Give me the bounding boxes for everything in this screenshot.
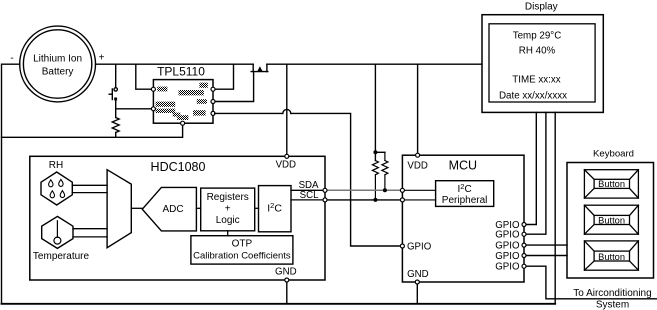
wire MCU VDD branch from rail <box>417 64 419 155</box>
svg-text:-: - <box>10 53 13 64</box>
svg-text:GND: GND <box>275 266 297 277</box>
wire MCU SCL pin to I2C peripheral <box>402 199 435 201</box>
resistor R3 pull-up SDA <box>384 152 386 160</box>
wire GPIO2 to display <box>524 112 546 234</box>
registers + logic block <box>201 188 255 231</box>
svg-text:GPIO: GPIO <box>495 241 520 252</box>
RH sensor hexagon <box>41 172 72 205</box>
wire registers to I2C <box>255 207 259 209</box>
wire MCU SDA pin to I2C peripheral <box>402 189 435 191</box>
svg-text:+: + <box>225 203 231 214</box>
node pull-up top junction <box>373 150 377 154</box>
svg-text:Button: Button <box>598 215 625 225</box>
svg-text:VDD: VDD <box>276 160 296 171</box>
wire GPIO4 to keyboard <box>524 255 567 257</box>
transistor Q1 PMOS pass switch <box>251 64 268 71</box>
mux trapezoid <box>107 170 131 248</box>
keyboard button S3 <box>584 205 638 234</box>
OTP calibration block <box>191 236 293 264</box>
svg-text:Display: Display <box>525 2 558 13</box>
wire pull-up feed from rail <box>374 64 376 160</box>
svg-text:System: System <box>596 300 629 310</box>
svg-text:Button: Button <box>598 179 625 189</box>
svg-text:Temperature: Temperature <box>33 251 90 262</box>
wire temperature to mux (double) <box>73 228 107 230</box>
svg-text:HDC1080: HDC1080 <box>151 160 206 174</box>
svg-text:SCL: SCL <box>300 190 319 201</box>
timer U1 TPL5110 box <box>153 80 213 124</box>
ADC block <box>142 187 196 231</box>
wire MCU GND to ground rail <box>416 282 418 304</box>
wire TPL top-right pin to VDD rail <box>215 64 234 89</box>
svg-text:Lithium Ion: Lithium Ion <box>33 54 82 65</box>
svg-text:Keyboard: Keyboard <box>593 149 634 160</box>
display module box <box>482 15 603 113</box>
svg-text:Battery: Battery <box>42 67 74 78</box>
svg-text:RH 40%: RH 40% <box>519 46 556 57</box>
svg-text:MCU: MCU <box>449 159 477 173</box>
wire TPL5110 VDD pin branch <box>136 64 152 89</box>
wire VDD rail (PMOS to Display) <box>267 63 482 65</box>
U1 pins <box>151 87 215 125</box>
HDC pins <box>285 154 327 282</box>
svg-text:Registers: Registers <box>207 192 249 203</box>
I2C peripheral block <box>436 181 494 207</box>
wire HDC GND to ground rail <box>286 280 288 304</box>
keyboard button S2 <box>584 170 638 198</box>
wire SCL net HDC to MCU <box>325 199 402 201</box>
node R2 to SCL junction <box>373 198 377 202</box>
wire RH to mux (double) <box>72 184 107 186</box>
RH droplets <box>49 179 65 197</box>
wire GPIO3 to keyboard <box>524 244 567 246</box>
svg-text:Button: Button <box>598 252 625 262</box>
wire ADC to registers <box>196 207 200 209</box>
keyboard button S4 <box>584 241 638 270</box>
U1 pin label dither blocks <box>156 83 208 120</box>
wire display ground drop <box>554 112 556 303</box>
MCU GPIO right labels <box>495 220 520 273</box>
wire HDC1080 VDD branch from rail <box>286 64 288 156</box>
wire TPL gate drive to transistor <box>215 72 254 102</box>
svg-text:I2C: I2C <box>458 182 472 195</box>
wire ground branch y137 <box>2 123 183 137</box>
svg-text:GPIO: GPIO <box>495 262 520 273</box>
svg-text:GPIO: GPIO <box>495 251 520 262</box>
resistor R2 pull-up SCL <box>372 161 378 175</box>
wire battery negative to left rail <box>2 64 20 304</box>
svg-text:Peripheral: Peripheral <box>442 195 488 206</box>
svg-text:I2C: I2C <box>267 201 282 215</box>
svg-text:Temp 29°C: Temp 29°C <box>513 31 562 42</box>
wire pushbutton to TPL EN pin <box>116 108 152 110</box>
MCU U3 box <box>402 155 524 282</box>
resistor R1 pulldown <box>112 118 119 133</box>
svg-text:TPL5110: TPL5110 <box>157 65 205 79</box>
svg-text:TIME xx:xx: TIME xx:xx <box>512 75 561 86</box>
I2C engine block <box>259 186 292 232</box>
temperature sensor hexagon <box>42 216 73 248</box>
svg-text:OTP: OTP <box>232 239 253 250</box>
battery BT1 <box>20 26 96 102</box>
wire I2C block to SCL pin <box>291 199 325 201</box>
sensor U2 HDC1080 box <box>30 156 325 280</box>
svg-text:VDD: VDD <box>407 160 427 171</box>
svg-text:Logic: Logic <box>216 215 240 226</box>
thermometer glyph <box>56 221 58 237</box>
svg-text:GND: GND <box>407 269 429 280</box>
wire GPIO1 to display <box>524 112 536 224</box>
svg-text:Date xx/xx/xxxx: Date xx/xx/xxxx <box>499 91 567 102</box>
svg-text:Calibration Coefficients: Calibration Coefficients <box>193 251 291 262</box>
MCU pins <box>400 153 526 284</box>
wire ground bottom rail <box>2 303 556 305</box>
wire VDD rail (battery + to PMOS) <box>96 63 254 65</box>
svg-text:GPIO: GPIO <box>407 242 432 253</box>
node R3 to SDA junction <box>383 188 387 192</box>
svg-text:RH: RH <box>49 160 63 171</box>
keyboard module box <box>567 163 654 279</box>
svg-text:ADC: ADC <box>162 204 183 215</box>
wire registers to OTP <box>227 231 229 236</box>
svg-text:GPIO: GPIO <box>495 230 520 241</box>
wire DONE net: TPL to MCU GPIO with hop over HDC VDD wire <box>215 112 283 114</box>
wire GPIO5 to airconditioning <box>524 266 657 299</box>
wire I2C block to SDA pin <box>291 189 325 191</box>
pushbutton S1 <box>109 64 117 117</box>
wire SDA net HDC to MCU <box>325 189 402 191</box>
svg-text:To Airconditioning: To Airconditioning <box>573 288 651 299</box>
wire mux to ADC <box>131 207 142 209</box>
svg-text:+: + <box>99 53 105 64</box>
